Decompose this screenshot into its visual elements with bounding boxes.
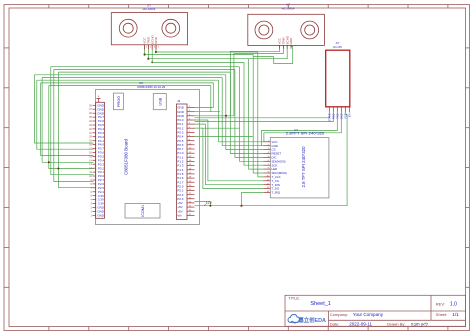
svg-text:1.0: 1.0 (450, 302, 457, 308)
svg-text:Date:: Date: (330, 322, 340, 327)
svg-text:USB: USB (158, 97, 162, 105)
svg-text:J3: J3 (177, 99, 181, 103)
svg-text:Vin: Vin (177, 214, 182, 218)
svg-text:Your Company: Your Company (353, 312, 384, 317)
svg-text:TXD: TXD (335, 113, 339, 118)
svg-text:EN: EN (347, 113, 351, 117)
svg-text:2.8 TFT SPI 240*320: 2.8 TFT SPI 240*320 (301, 146, 306, 188)
svg-text:RXD: RXD (331, 113, 335, 119)
svg-text:嘉立创EDA: 嘉立创EDA (297, 316, 326, 324)
svg-text:1/1: 1/1 (452, 312, 459, 317)
svg-text:Company:: Company: (330, 312, 348, 317)
svg-text:TITLE:: TITLE: (288, 295, 300, 300)
svg-text:HC-SR04: HC-SR04 (282, 6, 295, 10)
svg-text:Sheet_1: Sheet_1 (310, 301, 331, 307)
svg-text:2022-09-11: 2022-09-11 (349, 322, 372, 327)
svg-text:GND: GND (97, 213, 105, 217)
svg-text:C8051F380 10.10.29: C8051F380 10.10.29 (137, 85, 166, 89)
svg-text:12V: 12V (206, 201, 213, 205)
svg-text:ICOM1: ICOM1 (141, 205, 145, 217)
svg-text:ליאן חובה: ליאן חובה (411, 322, 429, 327)
svg-text:GND: GND (339, 113, 343, 119)
svg-text:VCC: VCC (343, 113, 347, 119)
svg-text:2.8TFT SPI 240*320: 2.8TFT SPI 240*320 (286, 132, 325, 136)
svg-text:GND: GND (289, 37, 293, 45)
svg-text:+: + (98, 94, 100, 98)
svg-text:T_IRQ: T_IRQ (272, 191, 281, 195)
svg-text:Sheet:: Sheet: (436, 312, 448, 317)
svg-text:HC-SR04: HC-SR04 (143, 7, 156, 11)
svg-text:HC-05: HC-05 (333, 45, 342, 49)
svg-text:STATE: STATE (327, 113, 331, 121)
svg-text:PROG: PROG (117, 96, 121, 107)
svg-text:REV:: REV: (436, 301, 445, 306)
svg-text:GND: GND (154, 36, 158, 44)
svg-text:C8051F380 Board: C8051F380 Board (124, 139, 129, 175)
svg-text:Drawn By:: Drawn By: (387, 322, 405, 327)
